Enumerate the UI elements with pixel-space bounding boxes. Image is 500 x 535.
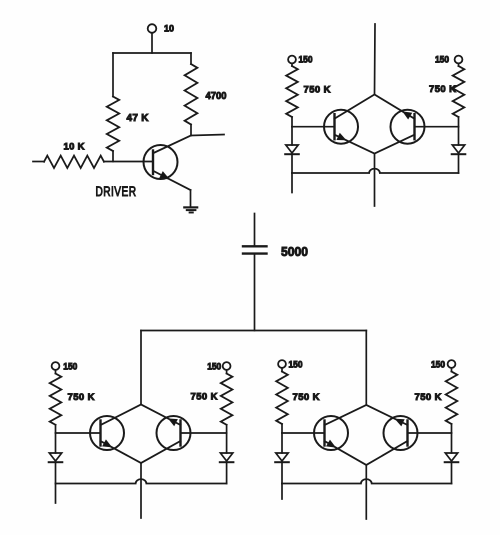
wire bottom-right cell bottom with crossover hump	[282, 479, 452, 483]
wire bottom-left cell left stub below	[55, 484, 57, 504]
wire capacitor bottom lead	[254, 254, 256, 331]
wire bottom-right cell left diode to bottom wire	[281, 462, 283, 483]
transistor top cell left collector lead	[335, 95, 375, 119]
wire bottom-right cell left base wire	[282, 432, 325, 434]
transistor bottom-left cell right emitter arrow	[169, 419, 177, 425]
wire input stub	[33, 161, 44, 163]
transistor bottom-left cell right body	[157, 416, 191, 450]
terminal 150 bottom-right cell left	[278, 360, 286, 368]
resistor 750K bottom-left cell left	[50, 374, 62, 425]
wire base node to transistor	[104, 161, 153, 163]
transistor top cell left emitter lead	[335, 135, 375, 154]
wire top cell right base wire	[415, 126, 459, 128]
svg-text:750 K: 750 K	[415, 392, 442, 403]
wire output	[191, 135, 224, 136]
transistor bottom-left cell left emitter lead	[101, 441, 142, 463]
wire distribution bus	[141, 330, 366, 332]
terminal 150 top cell left	[288, 56, 296, 64]
wire capacitor top lead	[254, 214, 256, 247]
wire top cell right diode to bottom wire	[458, 154, 460, 173]
wire bottom-right cell left terminal to resistor	[281, 368, 283, 372]
wire top cell right terminal to resistor	[458, 63, 460, 66]
wire bottom-left cell left diode to bottom wire	[55, 462, 57, 483]
svg-text:10: 10	[164, 24, 174, 35]
diode bottom-left cell right	[220, 453, 232, 461]
resistor 750K bottom-left cell right	[221, 374, 233, 425]
wire bottom-left cell center output stub	[140, 463, 142, 518]
wire left branch upper	[112, 53, 114, 97]
transistor bottom-left cell right emitter lead	[141, 405, 181, 426]
wire bottom-right cell right resistor to base node	[451, 424, 453, 433]
svg-text:150: 150	[431, 360, 445, 370]
diode top cell left	[286, 145, 298, 153]
svg-text:750 K: 750 K	[429, 84, 456, 95]
wire top cell left terminal to resistor	[291, 63, 293, 66]
transistor bottom-right cell left emitter arrow	[327, 441, 335, 448]
svg-text:750 K: 750 K	[304, 85, 331, 96]
wire bottom-left cell right diode to bottom wire	[226, 462, 228, 483]
wire bottom-left cell right base node to diode	[226, 433, 228, 453]
svg-text:10 K: 10 K	[64, 142, 85, 153]
wire bottom-left cell right resistor to base node	[226, 425, 228, 433]
transistor top cell right body	[391, 110, 425, 144]
transistor top cell left base bar	[333, 114, 335, 139]
wire bottom-left cell right base wire	[181, 432, 227, 434]
wire emitter to ground	[190, 190, 192, 208]
wire top cell left base node to diode	[291, 127, 293, 145]
terminal 150 bottom-left cell right	[223, 362, 231, 370]
svg-text:750 K: 750 K	[293, 392, 320, 403]
wire bus left drop	[140, 331, 142, 405]
transistor bottom-left cell left body	[90, 416, 124, 450]
transistor top cell right base bar	[413, 114, 415, 139]
transistor Q1 body	[144, 145, 178, 179]
transistor Q1 emitter	[154, 171, 191, 190]
svg-text:4700: 4700	[206, 91, 227, 102]
terminal 150 bottom-right cell right	[448, 360, 456, 368]
resistor 750K top cell right	[453, 66, 465, 117]
svg-text:47 K: 47 K	[127, 113, 150, 124]
transistor top cell left emitter arrow	[337, 134, 345, 140]
wire top cell left base wire	[292, 126, 335, 128]
wire bottom-left cell left base node to diode	[55, 433, 57, 453]
svg-text:150: 150	[207, 361, 221, 371]
wire 4700 to collector node	[190, 125, 192, 136]
transistor bottom-right cell left emitter lead	[325, 441, 367, 465]
svg-text:DRIVER: DRIVER	[96, 184, 137, 199]
wire top cell input from above	[374, 24, 377, 95]
transistor Q1 collector	[154, 136, 192, 154]
transistor bottom-left cell left base bar	[99, 421, 101, 446]
wire 47K to base node	[112, 151, 114, 162]
diode top cell right	[452, 145, 464, 153]
wire top cell right resistor to base node	[458, 117, 460, 127]
wire right branch upper	[190, 53, 192, 64]
transistor Q1 emitter arrow	[160, 172, 169, 179]
transistor bottom-right cell right collector lead	[366, 441, 407, 465]
capacitor C 5000	[243, 245, 267, 247]
wire bottom-right cell left stub below	[281, 484, 283, 500]
transistor bottom-right cell left collector lead	[325, 405, 367, 425]
transistor bottom-right cell left base bar	[323, 421, 325, 446]
resistor 750K top cell left	[286, 66, 298, 117]
svg-text:150: 150	[435, 55, 449, 65]
transistor bottom-left cell left collector lead	[101, 405, 142, 426]
transistor top cell right emitter lead	[375, 95, 415, 119]
transistor bottom-left cell right base bar	[179, 421, 181, 446]
wire bottom-left cell right terminal to resistor	[226, 370, 228, 374]
svg-text:150: 150	[63, 361, 77, 371]
svg-text:150: 150	[299, 55, 313, 65]
diode bottom-right cell left	[276, 453, 288, 461]
wire bottom-left cell left terminal to resistor	[55, 370, 57, 374]
wire bottom-right cell right terminal to resistor	[451, 368, 453, 372]
transistor top cell right emitter arrow	[403, 112, 411, 119]
wire top cell right base node to diode	[458, 127, 460, 145]
wire bottom-left cell bottom with crossover hump	[56, 479, 227, 483]
wire top cell center output stub	[374, 154, 376, 207]
wire terminal to top rail	[151, 33, 153, 53]
resistor R 4700	[185, 64, 198, 125]
wire bottom-right cell right base wire	[408, 432, 452, 434]
transistor bottom-right cell right base bar	[406, 421, 408, 446]
svg-text:750 K: 750 K	[68, 392, 95, 403]
wire bus right drop	[365, 331, 367, 406]
transistor Q1 base bar	[152, 151, 154, 175]
resistor 750K bottom-right cell left	[276, 372, 288, 425]
diode bottom-right cell right	[445, 453, 457, 461]
transistor top cell left body	[324, 110, 358, 144]
terminal 10 (driver supply)	[148, 24, 157, 33]
terminal 150 bottom-left cell left	[52, 362, 60, 370]
resistor R 10K	[44, 156, 104, 168]
transistor bottom-right cell right emitter lead	[366, 405, 407, 425]
transistor bottom-left cell right collector lead	[141, 441, 181, 463]
ground symbol	[184, 206, 197, 208]
wire bottom-right cell center output stub	[365, 465, 367, 519]
svg-text:750 K: 750 K	[191, 392, 218, 403]
wire bottom-left cell left resistor to base node	[55, 425, 57, 433]
wire top cell left resistor to base node	[291, 117, 293, 127]
terminal 150 top cell right	[455, 56, 463, 64]
wire bottom-right cell right base node to diode	[451, 433, 453, 453]
transistor top cell right collector lead	[375, 135, 415, 154]
resistor R 47K	[107, 97, 119, 152]
transistor bottom-left cell left emitter arrow	[103, 440, 111, 446]
resistor 750K bottom-right cell right	[446, 372, 458, 425]
wire top cell bottom with crossover hump	[292, 169, 459, 173]
wire bottom-right cell left base node to diode	[281, 433, 283, 453]
diode bottom-left cell left	[49, 453, 61, 461]
svg-text:5000: 5000	[281, 244, 308, 259]
wire top cell left diode to bottom wire	[291, 154, 293, 173]
wire bottom-left cell left base wire	[56, 432, 101, 434]
wire top rail	[113, 52, 191, 54]
transistor bottom-right cell left body	[314, 416, 348, 450]
wire bottom-right cell left resistor to base node	[281, 424, 283, 433]
transistor bottom-right cell right emitter arrow	[396, 419, 404, 425]
wire bottom-right cell right diode to bottom wire	[451, 462, 453, 483]
transistor bottom-right cell right body	[384, 416, 418, 450]
svg-text:150: 150	[289, 360, 303, 370]
wire top cell left stub below	[291, 173, 293, 193]
